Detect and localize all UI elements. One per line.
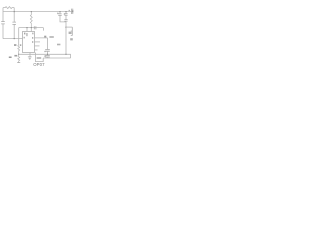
capacitor C6 (right area x=60, electrolytic)	[59, 12, 61, 14]
connector J2 (right edge bracket)	[71, 27, 73, 35]
value label blob above mid bus right	[57, 44, 60, 46]
net label blob far left	[9, 57, 12, 59]
net label blob above output wire	[44, 36, 46, 38]
resistor R2 (vertical zigzag from bus at x=31.3)	[30, 12, 32, 28]
wire top supply bus	[3, 11, 72, 13]
pin stub 3 (right of U1)	[35, 45, 40, 47]
plus sign of C7	[64, 13, 66, 15]
junction dot output net on mid bus	[47, 54, 48, 55]
pin number 7 text blob	[32, 33, 33, 35]
wire left branch vertical x=3	[2, 8, 4, 39]
pin stub 2 (right of U1)	[35, 49, 38, 51]
junction dot C7 on bus	[65, 11, 66, 12]
ground symbol (below U1)	[28, 57, 32, 60]
junction dot node B	[31, 27, 32, 28]
plus sign of C4	[44, 51, 46, 53]
plus sign of C5	[44, 55, 46, 57]
junction dot right vertical at y=27.1	[65, 26, 66, 27]
wire capacitor C5 to low net	[47, 57, 49, 58]
junction dot node A	[26, 27, 27, 28]
wire second branch vertical x=14	[13, 8, 15, 39]
pin number blob right of R3	[20, 44, 22, 46]
wire inverting node vertical x=18.7 with corner from node line	[18, 28, 20, 45]
pin stub ground (bottom of U1)	[29, 53, 31, 57]
capacitor C7 (right area x=66, electrolytic upper)	[65, 12, 67, 14]
pin wire 6 (right of U1, output)	[35, 38, 48, 49]
junction dot at x=14 on bottom-left net	[14, 38, 15, 39]
junction dot C6 on bus	[59, 11, 60, 12]
pin dot inside U1	[26, 33, 29, 36]
plus sign of C6	[57, 12, 59, 14]
pin stub 4 (bottom of U1) with dogleg wire	[36, 53, 44, 62]
wire low horizontal net y=58	[43, 57, 70, 59]
pin number text blob near output pin	[32, 37, 33, 39]
capacitor C2 (on x=14 branch)	[12, 22, 16, 24]
resistor R3 (vertical zigzag x=18.7 upper)	[18, 45, 20, 55]
capacitor C5 (on output vertical, lower)	[45, 55, 50, 57]
value label blob right edge mid	[69, 32, 72, 34]
wire out to right connector	[66, 26, 72, 28]
wire right end link	[70, 54, 72, 58]
capacitor C8 (right area x=66, lower)	[65, 15, 67, 19]
capacitor C3 marks on node line	[34, 26, 36, 29]
value label blob under mid bus left of C4	[37, 57, 42, 59]
pin stub 5 (right of U1)	[35, 41, 41, 43]
value label blob right edge lower	[70, 38, 73, 40]
junction dot inverting node on mid bus	[18, 54, 19, 55]
resistor R1 (top-left, zigzag above bus)	[3, 7, 14, 9]
pin number text blob near pin 5	[32, 41, 33, 43]
connector J1 pin dot	[69, 10, 70, 11]
capacitor C1 (on x=3 branch)	[1, 22, 5, 24]
wire right vertical x=66 down to mid bus	[65, 21, 67, 54]
op-amp U1 body (rectangle)	[23, 32, 35, 53]
junction dot right vertical on mid bus	[65, 54, 66, 55]
svg-text:OP07: OP07	[33, 62, 45, 67]
net label blob left of R3	[14, 44, 16, 46]
pin number text blob near left pin	[24, 37, 25, 39]
wire bottom-left net to IC left pin	[3, 38, 23, 40]
pin number 8 text blob	[24, 33, 25, 35]
capacitor C4 (on output vertical, upper)	[45, 50, 50, 52]
background	[0, 0, 74, 74]
pin stub 8 (top of U1)	[26, 28, 28, 32]
connector J1 blob	[72, 10, 73, 12]
ground tick under R4	[17, 62, 20, 64]
pin stub 7 (top of U1)	[30, 28, 32, 32]
node line (input net y=27.6)	[19, 28, 44, 31]
value label blob right of output corner	[49, 36, 53, 38]
net label blob left of R4	[14, 55, 17, 57]
wire mid horizontal net y=54.3	[19, 53, 71, 55]
wire between capacitors	[47, 51, 49, 55]
connector J1 (top right)	[72, 9, 74, 14]
resistor R4 (vertical zigzag x=18.7 lower)	[18, 55, 20, 62]
junction dot resistor R2 on bus	[31, 11, 32, 12]
junction dot at x=14 on top bus	[14, 11, 15, 12]
